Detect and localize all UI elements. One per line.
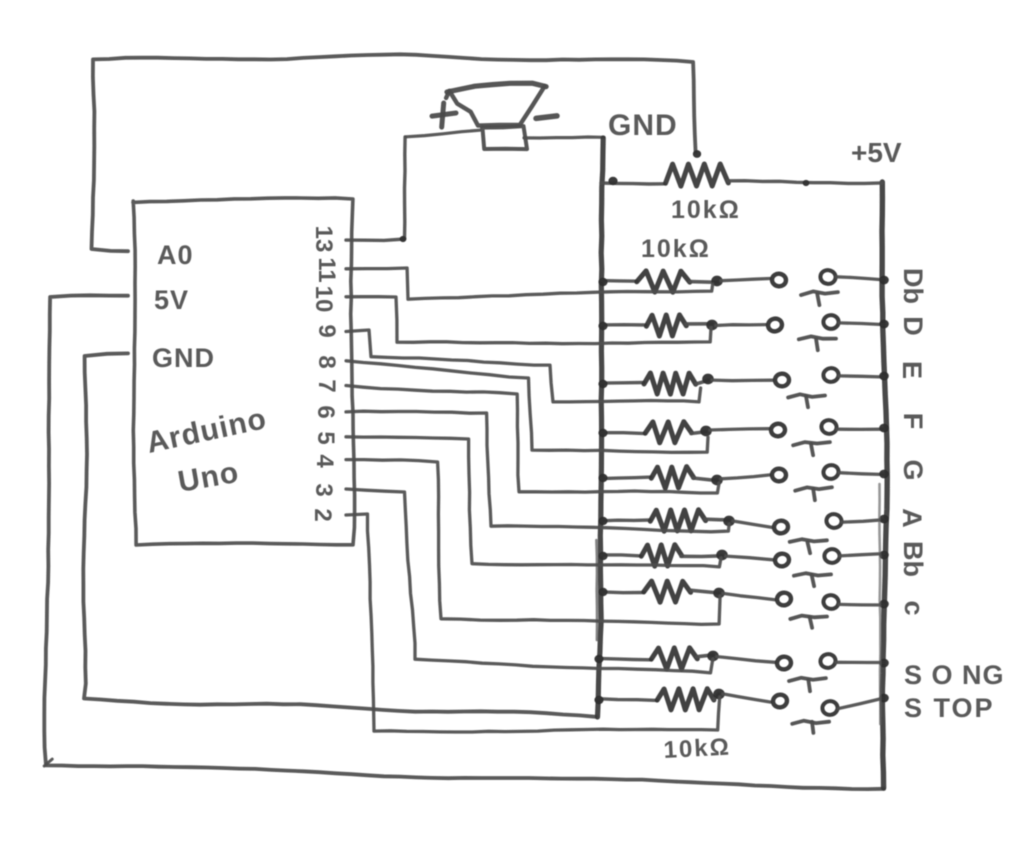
svg-text:10kΩ: 10kΩ — [641, 235, 711, 263]
label Uno — [175, 456, 241, 499]
wire +5V bus retrace — [879, 484, 880, 724]
switch S5 right contact — [822, 464, 840, 481]
switch S4 right contact — [820, 419, 838, 435]
node S4 bus junction — [879, 424, 889, 433]
switch S10 right contact — [822, 700, 839, 715]
arduino U1 outline — [133, 198, 355, 545]
switch S9 left contact — [776, 655, 792, 670]
switch S2 actuator — [799, 336, 836, 350]
wire S9 to +5V bus — [836, 661, 884, 665]
switch S9 right contact — [819, 653, 837, 670]
node R8 right junction — [713, 588, 725, 599]
wire pin7 to R5 — [346, 386, 719, 494]
svg-text:10: 10 — [310, 286, 337, 313]
speaker LS1 horn — [446, 83, 546, 125]
resistor R8 10k — [602, 581, 719, 602]
node S9 bus junction — [879, 659, 889, 668]
wire S6 to +5V bus — [842, 520, 884, 523]
node R5 bus junction — [598, 474, 607, 482]
svg-text:GND: GND — [152, 343, 215, 373]
wire pin8 to R4 — [346, 361, 708, 453]
wire +5V bus — [882, 182, 887, 788]
switch S3 actuator — [788, 394, 825, 407]
wire R6 to switch — [733, 521, 772, 527]
switch S8 right contact — [822, 594, 840, 611]
node S5 bus junction — [879, 470, 889, 479]
node R3 bus junction — [598, 380, 607, 388]
wire R4 to switch — [710, 429, 769, 430]
switch S1 actuator — [801, 291, 838, 305]
switch S8 left contact — [776, 591, 792, 606]
label Arduino — [144, 402, 270, 460]
label +5V — [851, 137, 902, 168]
switch S7 right contact — [824, 549, 840, 563]
wire pin2 to R10 — [346, 514, 720, 732]
node R7 right junction — [716, 550, 728, 561]
node R6 bus junction — [598, 517, 607, 525]
wire R3 to switch — [712, 378, 773, 382]
wire speaker right lead — [524, 137, 604, 138]
net label G — [898, 459, 928, 480]
svg-text:GND: GND — [608, 109, 678, 142]
svg-text:+5V: +5V — [851, 137, 902, 168]
switch S2 left contact — [767, 317, 784, 333]
resistor R1 10k — [602, 271, 717, 292]
net label STOP — [904, 693, 995, 723]
switch S7 left contact — [774, 552, 790, 567]
wire R8 to switch — [723, 593, 775, 599]
wire pin9 to R3 — [346, 330, 701, 402]
node R0 right wire dot — [803, 180, 810, 186]
svg-text:G: G — [898, 459, 928, 480]
switch S6 right contact — [825, 513, 843, 530]
wire GND to bus bottom — [83, 353, 596, 716]
wire R10 to switch — [723, 694, 771, 702]
switch S6 actuator — [790, 539, 827, 553]
switch S4 left contact — [770, 423, 786, 437]
svg-text:F: F — [898, 413, 928, 430]
resistor R5 10k — [602, 467, 717, 489]
node R3 right junction — [702, 374, 714, 385]
wire pin5 to R7 — [346, 437, 721, 567]
net label c — [899, 600, 929, 615]
svg-text:E: E — [897, 361, 927, 379]
svg-text:5: 5 — [312, 431, 339, 444]
resistor R4 10k — [602, 422, 706, 443]
switch S4 actuator — [793, 442, 830, 455]
pin label 5 — [312, 431, 339, 444]
svg-text:8: 8 — [313, 355, 340, 368]
pin label 9 — [313, 324, 340, 337]
svg-text:11: 11 — [313, 257, 340, 282]
svg-text:4: 4 — [311, 454, 338, 468]
wire speaker left lead — [406, 130, 480, 137]
svg-text:Db: Db — [898, 268, 928, 304]
node R2 right junction — [706, 320, 718, 331]
svg-text:10kΩ: 10kΩ — [663, 734, 732, 764]
svg-text:A0: A0 — [157, 240, 194, 270]
svg-text:c: c — [899, 600, 929, 615]
wire pin11 to R1 — [346, 268, 713, 299]
pin label A0 — [157, 240, 194, 270]
svg-text:9: 9 — [313, 324, 340, 337]
pin label 11 — [313, 257, 340, 282]
node R1 bus junction — [598, 278, 607, 286]
svg-text:S O NG: S O NG — [904, 660, 1005, 690]
node R10 bus junction — [594, 696, 603, 704]
resistor R9 10k — [598, 648, 713, 669]
node S8 bus junction — [879, 600, 889, 609]
switch S3 left contact — [775, 373, 789, 386]
svg-text:2: 2 — [309, 508, 336, 521]
wire pin4 to R8 — [346, 460, 720, 625]
wire pin13 to speaker — [346, 137, 405, 240]
pin label 4 — [311, 454, 338, 468]
speaker minus sign — [536, 116, 557, 119]
switch S10 left contact — [772, 693, 788, 708]
switch S5 left contact — [772, 468, 786, 481]
switch S5 actuator — [795, 487, 832, 500]
wire pin3 to R9 — [346, 489, 713, 673]
svg-text:5V: 5V — [154, 285, 189, 315]
node R10 right junction — [713, 689, 725, 700]
node R0 left junction — [608, 177, 617, 185]
node S1 bus junction — [879, 276, 889, 285]
wire pin10 to R2 — [346, 297, 711, 344]
pin label 10 — [310, 286, 337, 313]
wire R1 to switch — [721, 279, 770, 281]
wire bottom-left tick — [44, 759, 52, 766]
wire 5V bottom rail — [44, 295, 884, 789]
svg-text:A: A — [897, 508, 927, 528]
switch S7 actuator — [794, 573, 831, 586]
wire R5 to switch — [721, 475, 770, 479]
node R8 bus junction — [598, 588, 607, 596]
switch S2 right contact — [823, 315, 838, 329]
svg-text:10kΩ: 10kΩ — [671, 196, 741, 224]
switch S1 left contact — [771, 273, 787, 287]
net label D — [898, 316, 928, 336]
switch S8 actuator — [790, 616, 827, 628]
resistor R6 10k — [602, 510, 729, 532]
node S3 bus junction — [879, 372, 889, 381]
node R9 right junction — [707, 651, 719, 662]
svg-text:Bb: Bb — [898, 541, 928, 577]
node R9 bus junction — [594, 655, 603, 663]
pin label GND — [152, 343, 215, 373]
switch S6 left contact — [773, 520, 788, 534]
pin label 2 — [309, 508, 336, 521]
resistor R10 10k — [598, 689, 719, 710]
svg-text:D: D — [898, 316, 928, 336]
label GND top — [608, 109, 678, 142]
label 10k ohm row1 — [641, 235, 711, 263]
wire S2 to +5V bus — [839, 323, 884, 325]
wire R2 to switch — [716, 323, 766, 327]
resistor R2 10k — [602, 315, 712, 336]
pin label 13 — [310, 226, 337, 253]
pin label 8 — [313, 355, 340, 368]
pin label 6 — [312, 405, 339, 418]
node S6 bus junction — [879, 515, 889, 524]
wire S5 to +5V bus — [839, 473, 884, 475]
node R7 bus junction — [598, 552, 607, 560]
net label Db — [898, 268, 928, 304]
switch S3 right contact — [823, 367, 840, 382]
wire S4 to +5V bus — [837, 428, 884, 431]
node R4 right junction — [700, 426, 712, 437]
label 10k ohm bottom — [663, 734, 732, 764]
net label A — [897, 508, 927, 528]
wire GND bus — [598, 138, 604, 717]
node R5 right junction — [711, 475, 723, 486]
node R1 right junction — [711, 276, 723, 287]
resistor R7 10k — [602, 545, 722, 566]
speaker LS1 magnet — [482, 126, 527, 149]
wire S3 to +5V bus — [839, 376, 884, 377]
svg-text:3: 3 — [310, 483, 337, 496]
net label SONG — [904, 660, 1005, 690]
wire S8 to +5V bus — [839, 603, 884, 607]
switch S9 actuator — [789, 678, 826, 691]
speaker plus sign — [432, 103, 456, 127]
wire S1 to +5V bus — [836, 277, 884, 280]
wire A0 to top rail — [92, 54, 696, 251]
wire pin6 to R6 — [346, 411, 729, 532]
node S7 bus junction — [879, 551, 889, 560]
node pin13 corner — [400, 236, 407, 242]
node A0 rail junction — [693, 150, 701, 158]
net label Bb — [898, 541, 928, 577]
svg-text:13: 13 — [310, 226, 337, 253]
pin label 7 — [313, 379, 340, 392]
wire GND bus retrace — [595, 540, 598, 640]
node R6 right junction — [723, 516, 735, 527]
resistor R0 10k — [601, 164, 882, 186]
svg-text:S TOP: S TOP — [904, 693, 995, 723]
wire R9 to switch — [717, 657, 775, 663]
svg-text:7: 7 — [313, 379, 340, 392]
label 10k ohm top — [671, 196, 741, 224]
switch S10 actuator — [792, 721, 829, 733]
net label E — [897, 361, 927, 379]
node R2 bus junction — [598, 322, 607, 330]
switch S1 right contact — [820, 269, 837, 284]
net label F — [898, 413, 928, 430]
svg-text:6: 6 — [312, 405, 339, 418]
resistor R3 10k — [602, 373, 708, 394]
pin label 5V — [154, 285, 189, 315]
pin label 3 — [310, 483, 337, 496]
node S2 bus junction — [879, 320, 889, 329]
node R4 bus junction — [598, 429, 607, 437]
wire R7 to switch — [726, 556, 773, 560]
node S10 bus junction — [879, 694, 889, 703]
wire S10 to +5V bus — [838, 698, 884, 709]
wire S7 to +5V bus — [840, 554, 884, 556]
